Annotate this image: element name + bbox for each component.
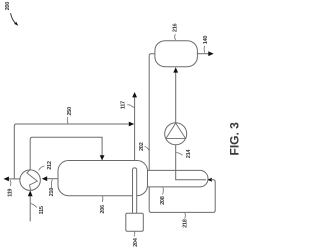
arrowhead 250 into line 117: [129, 122, 134, 127]
vessel 206: [58, 161, 148, 196]
arrowhead 140 right: [208, 51, 213, 56]
svg-text:206: 206: [100, 205, 106, 214]
wire 250 top recycle line: [14, 124, 133, 179]
svg-text:218: 218: [183, 219, 189, 228]
svg-text:214: 214: [186, 149, 192, 159]
label 119: [8, 189, 14, 197]
FIG. 3 caption: [228, 122, 242, 156]
leader for 216: [174, 34, 177, 40]
leader for 140: [203, 46, 206, 53]
label 218: [183, 219, 189, 228]
pump impeller triangle: [166, 123, 186, 138]
heat exchanger 212 circle: [20, 170, 40, 191]
zigzag inside heat exchanger: [27, 170, 38, 190]
pump discharge to vessel 216: [175, 72, 177, 123]
stream 115 line: [29, 196, 31, 222]
svg-text:208: 208: [160, 196, 166, 205]
arrowhead 117 up: [132, 92, 137, 97]
svg-text:200: 200: [5, 2, 11, 11]
svg-text:216: 216: [173, 23, 179, 32]
label 140: [203, 36, 209, 45]
svg-text:FIG. 3: FIG. 3: [228, 122, 241, 156]
leader for 212: [39, 166, 45, 170]
label 250: [67, 107, 73, 116]
arrowhead 210 left: [42, 176, 47, 181]
extension 208 vessel: [140, 170, 208, 187]
box 204: [126, 213, 144, 231]
wire HX top to vessel 206 top: [30, 137, 102, 170]
svg-text:210: 210: [49, 188, 55, 197]
leader for 206: [101, 196, 104, 202]
dip tube standpipe: [133, 168, 137, 214]
arrowhead into vessel 216 bottom: [173, 67, 178, 72]
pump suction line into extension: [176, 145, 206, 180]
label 212: [47, 161, 53, 170]
leader for 208: [162, 187, 165, 194]
label 202: [139, 142, 145, 151]
svg-text:204: 204: [133, 237, 139, 247]
label 206: [100, 205, 106, 214]
leader for 119: [9, 180, 12, 186]
leader for 218: [184, 213, 187, 219]
svg-text:202: 202: [139, 142, 145, 151]
loop 218 pipe: [149, 180, 215, 213]
label 115: [39, 206, 45, 214]
pipe 202 riser: [149, 54, 155, 171]
svg-text:212: 212: [47, 161, 53, 170]
stream 210 line from vessel to HX: [43, 178, 58, 180]
label 204: [133, 237, 139, 247]
svg-text:117: 117: [121, 101, 127, 109]
stream 140 out line: [197, 53, 210, 55]
label 200: [5, 2, 11, 11]
svg-text:115: 115: [39, 206, 45, 214]
arrowhead 115 up into HX: [28, 190, 33, 196]
leader for 210: [51, 180, 53, 190]
pump 214: [165, 123, 187, 145]
vessel 216: [155, 41, 198, 67]
stream 117 line: [134, 97, 136, 169]
leader for 204: [133, 232, 136, 237]
label 117: [121, 101, 127, 109]
loop 218 return arrowhead: [207, 178, 211, 182]
label 210: [49, 188, 55, 197]
svg-text:140: 140: [203, 36, 209, 45]
svg-text:119: 119: [8, 189, 14, 197]
arrowhead 119 left: [4, 177, 9, 182]
label 216: [173, 23, 179, 32]
leader arrow for 200: [11, 13, 19, 26]
leader for 202: [145, 147, 149, 151]
stream 119 out line: [5, 178, 20, 180]
arrowhead into vessel 206 top: [100, 155, 105, 160]
svg-text:250: 250: [67, 107, 73, 116]
label 214: [186, 149, 192, 159]
leader for 117: [127, 105, 134, 108]
label 208: [160, 196, 166, 205]
leader for 250: [66, 117, 69, 124]
leader for 115: [31, 204, 37, 208]
leader for 214: [176, 153, 182, 156]
